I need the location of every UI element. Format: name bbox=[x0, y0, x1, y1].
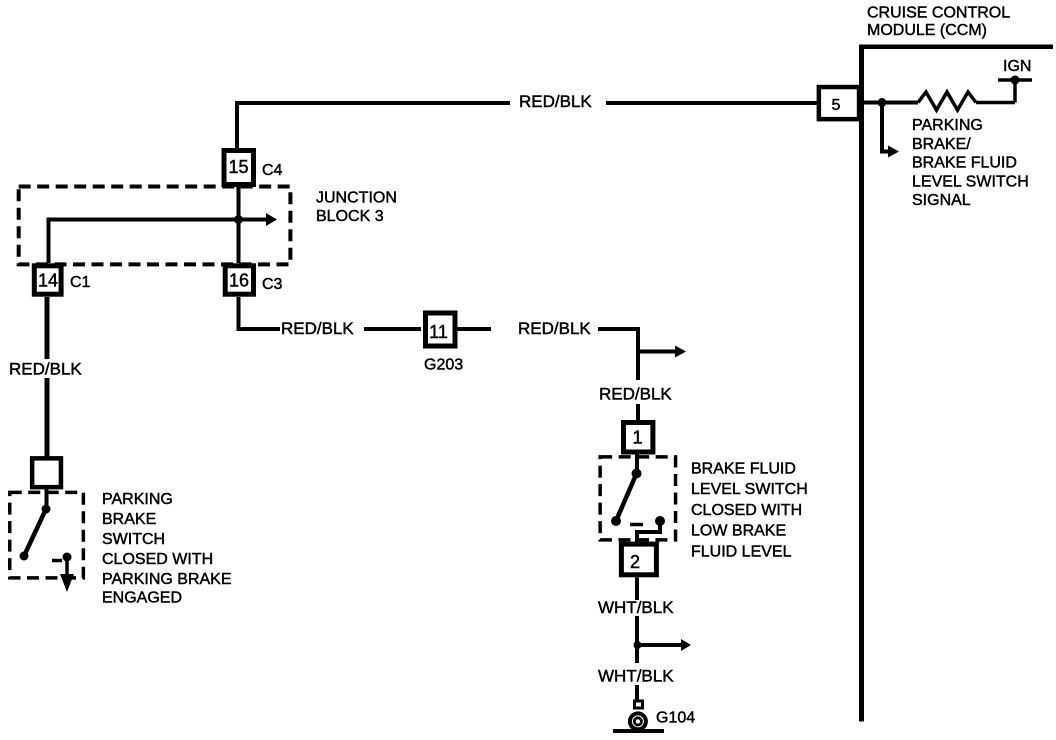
svg-text:CLOSED WITH: CLOSED WITH bbox=[102, 551, 213, 568]
svg-text:PARKING: PARKING bbox=[912, 117, 983, 134]
svg-text:11: 11 bbox=[429, 322, 448, 342]
svg-text:SWITCH: SWITCH bbox=[102, 531, 165, 548]
svg-text:G203: G203 bbox=[424, 357, 463, 374]
svg-text:15: 15 bbox=[228, 157, 248, 177]
svg-text:1: 1 bbox=[632, 428, 642, 448]
svg-text:LEVEL SWITCH: LEVEL SWITCH bbox=[912, 173, 1029, 190]
svg-text:C1: C1 bbox=[70, 274, 91, 291]
svg-text:G104: G104 bbox=[656, 710, 695, 727]
svg-text:IGN: IGN bbox=[1003, 58, 1031, 75]
svg-text:SIGNAL: SIGNAL bbox=[912, 192, 971, 209]
svg-text:FLUID LEVEL: FLUID LEVEL bbox=[691, 543, 792, 560]
svg-text:ENGAGED: ENGAGED bbox=[102, 590, 182, 607]
svg-text:RED/BLK: RED/BLK bbox=[518, 319, 591, 338]
svg-text:BRAKE: BRAKE bbox=[102, 511, 156, 528]
svg-text:RED/BLK: RED/BLK bbox=[281, 319, 354, 338]
svg-text:WHT/BLK: WHT/BLK bbox=[598, 667, 674, 686]
svg-text:BLOCK 3: BLOCK 3 bbox=[316, 208, 384, 225]
svg-text:2: 2 bbox=[630, 552, 640, 572]
svg-text:BRAKE/: BRAKE/ bbox=[912, 136, 971, 153]
svg-text:BRAKE FLUID: BRAKE FLUID bbox=[912, 155, 1017, 172]
svg-text:C4: C4 bbox=[262, 162, 283, 179]
svg-text:16: 16 bbox=[229, 270, 249, 290]
svg-text:14: 14 bbox=[38, 270, 58, 290]
svg-text:RED/BLK: RED/BLK bbox=[9, 360, 82, 379]
svg-text:WHT/BLK: WHT/BLK bbox=[598, 598, 674, 617]
svg-text:JUNCTION: JUNCTION bbox=[316, 190, 397, 207]
svg-text:PARKING BRAKE: PARKING BRAKE bbox=[102, 571, 232, 588]
svg-text:C3: C3 bbox=[262, 276, 283, 293]
svg-text:CLOSED WITH: CLOSED WITH bbox=[691, 502, 802, 519]
svg-text:PARKING: PARKING bbox=[102, 491, 173, 508]
svg-text:RED/BLK: RED/BLK bbox=[519, 92, 592, 111]
svg-text:LOW BRAKE: LOW BRAKE bbox=[691, 523, 786, 540]
svg-text:MODULE (CCM): MODULE (CCM) bbox=[867, 22, 987, 39]
svg-text:5: 5 bbox=[832, 97, 841, 114]
svg-text:LEVEL SWITCH: LEVEL SWITCH bbox=[691, 481, 808, 498]
svg-text:BRAKE FLUID: BRAKE FLUID bbox=[691, 461, 796, 478]
svg-text:RED/BLK: RED/BLK bbox=[599, 385, 672, 404]
svg-text:CRUISE CONTROL: CRUISE CONTROL bbox=[867, 5, 1010, 22]
